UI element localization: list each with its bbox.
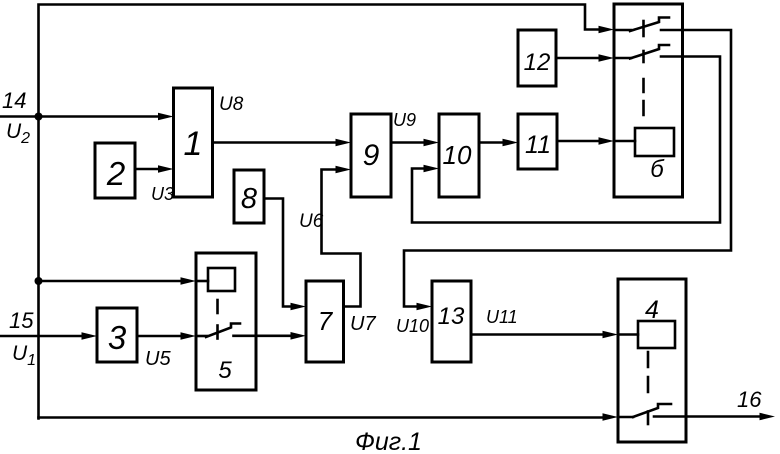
svg-text:Фиг.1: Фиг.1 [355,428,422,454]
svg-text:10: 10 [443,140,472,170]
svg-text:9: 9 [363,139,380,172]
svg-text:7: 7 [318,306,334,336]
svg-text:16: 16 [737,387,762,412]
svg-text:U1: U1 [12,342,36,369]
svg-text:3: 3 [108,319,127,356]
svg-text:11: 11 [525,131,551,159]
svg-text:U6: U6 [299,211,324,232]
svg-text:б: б [650,156,665,183]
svg-text:U2: U2 [6,120,30,147]
svg-text:U3: U3 [151,184,174,204]
svg-text:4: 4 [645,296,659,324]
svg-text:U10: U10 [396,316,429,336]
svg-text:U8: U8 [219,94,244,115]
svg-text:8: 8 [241,183,257,215]
svg-text:U9: U9 [393,110,416,130]
svg-text:12: 12 [524,49,551,76]
svg-text:14: 14 [2,88,26,113]
svg-text:2: 2 [106,155,125,192]
svg-text:1: 1 [184,125,203,163]
svg-text:U7: U7 [350,313,376,335]
svg-text:U11: U11 [486,307,518,327]
svg-text:U5: U5 [145,348,171,370]
svg-text:15: 15 [9,308,34,333]
svg-text:13: 13 [438,303,465,330]
svg-text:5: 5 [218,357,232,384]
